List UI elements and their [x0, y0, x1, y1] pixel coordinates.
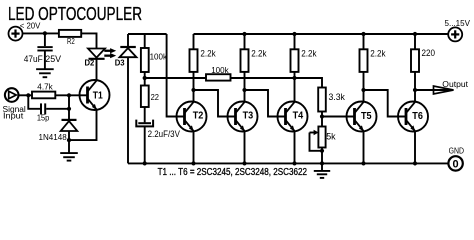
node rail T5 emitter — [361, 161, 365, 165]
svg-text:T2: T2 — [193, 111, 204, 122]
wire 4.7k to T1 base — [55, 94, 87, 96]
wire 47uF top lead — [44, 33, 46, 46]
wire +20V to R2 — [22, 32, 58, 34]
wire T5 emitter to rail — [363, 132, 365, 164]
resistor 2.2k no1 — [190, 49, 198, 72]
resistor 220 — [411, 49, 419, 72]
transistor T2 — [177, 102, 207, 132]
node rail 220 — [413, 32, 417, 36]
node 5k rail — [320, 161, 324, 165]
terminal 5...15V — [448, 27, 462, 41]
svg-text:5k: 5k — [326, 131, 336, 141]
transistor T4 — [278, 102, 308, 132]
capacitor 15p — [41, 103, 45, 114]
node T2 collector coupling — [191, 88, 195, 92]
svg-text:4.7k: 4.7k — [37, 82, 53, 92]
svg-text:0: 0 — [453, 158, 459, 170]
svg-text:Output: Output — [442, 79, 468, 89]
resistor 3.3k — [318, 88, 326, 112]
resistor 100k vertical — [141, 48, 149, 72]
resistor 2.2k no3 — [291, 49, 299, 72]
svg-text:22: 22 — [151, 92, 160, 102]
node T6 collector output — [413, 88, 417, 92]
wire output — [415, 89, 454, 91]
wire 2.2uF bottom to rail — [144, 126, 146, 163]
node T5 collector coupling — [361, 88, 365, 92]
node rail 2.2k no2 — [242, 32, 246, 36]
svg-text:3.3k: 3.3k — [329, 92, 346, 102]
node T5 base / 5k — [320, 114, 324, 118]
capacitor 2.2uF/3V electrolytic — [136, 120, 153, 127]
svg-text:100k: 100k — [150, 52, 168, 62]
capacitor C 47uF/25V — [37, 47, 52, 50]
output arrow — [434, 86, 454, 94]
wire 22 to 2.2uF — [144, 107, 146, 122]
bottom rail — [128, 162, 448, 164]
diode D1 1N4148 (cathode up) — [61, 120, 78, 131]
resistor 2.2k no2 — [241, 49, 249, 72]
node base/diode/cap — [67, 93, 71, 97]
wire base node down to 1N4148 — [68, 95, 70, 120]
wire to T5 base — [322, 116, 355, 118]
svg-text:220: 220 — [422, 48, 436, 58]
svg-text:47uF: 47uF — [24, 54, 44, 64]
wire coupling T3 to T4 base — [245, 90, 286, 117]
svg-text:GND: GND — [449, 145, 464, 155]
resistor 100k horizontal (feedback) — [206, 74, 231, 80]
node rail T3 emitter — [242, 161, 246, 165]
diode D2 (LED, cathode down) — [88, 49, 105, 59]
ground symbol below rail — [314, 163, 330, 178]
node rail T4 emitter — [292, 161, 296, 165]
svg-text:2.2uF/3V: 2.2uF/3V — [148, 129, 180, 139]
potentiometer 5k — [310, 127, 326, 151]
power rail 5..15V — [194, 33, 449, 35]
wire 2.2k no1 top lead — [193, 34, 195, 50]
node rail 2.2k no4 — [361, 32, 365, 36]
svg-text:5...15V: 5...15V — [445, 18, 471, 28]
node 15p/diode column — [67, 107, 71, 111]
resistor 4.7k — [32, 92, 55, 99]
wire T2 base vertical from rail A — [167, 34, 185, 117]
transistor T1 — [80, 80, 110, 110]
resistor 2.2k no4 — [360, 49, 368, 72]
ground under T1 — [60, 153, 78, 161]
wire 1N4148 to ground — [68, 131, 70, 153]
svg-text:R2: R2 — [67, 37, 75, 46]
svg-text:D2: D2 — [85, 57, 95, 67]
svg-text:T3: T3 — [243, 111, 254, 122]
svg-text:15p: 15p — [37, 113, 50, 123]
wire 15p branch right — [46, 108, 69, 110]
wire 220 top lead — [414, 34, 416, 50]
wire D3 anode down to bottom rail — [127, 57, 129, 163]
node 5k wiper join — [320, 149, 324, 153]
wire 15p branch left — [28, 95, 40, 109]
wire coupling T2 to T3 base — [194, 90, 236, 117]
wire 100k-h right to 3.3k corner — [231, 78, 323, 88]
wire T1 emitter — [69, 110, 97, 140]
svg-text:100k: 100k — [211, 65, 229, 75]
svg-text:2.2k: 2.2k — [200, 48, 216, 58]
node input/15p — [26, 93, 30, 97]
wire 2.2k no4 top lead — [363, 34, 365, 50]
resistor R2 — [59, 30, 81, 37]
resistor 22 — [141, 86, 149, 108]
wire 2.2k no3 top lead — [294, 34, 296, 50]
terminal Signal Input — [5, 88, 19, 102]
wire 2.2k no4 to T5 collector — [363, 72, 365, 103]
wire 47uF bottom lead — [44, 51, 46, 70]
node emitter/diode — [67, 138, 71, 142]
svg-text:T5: T5 — [361, 111, 372, 122]
node T3 collector coupling — [242, 88, 246, 92]
wire T2 emitter to rail — [193, 132, 195, 164]
svg-text:2.2k: 2.2k — [370, 48, 386, 58]
wire 3.3k bottom to T5 base node — [321, 112, 323, 127]
transistor T3 — [228, 102, 258, 132]
wire 2.2k no2 to T3 collector — [244, 72, 246, 103]
svg-text:1N4148: 1N4148 — [39, 132, 67, 142]
node rail T2 emitter — [191, 161, 195, 165]
wire 2.2k no3 to T4 collector — [294, 72, 296, 103]
wire R2 to D2 corner — [81, 33, 97, 48]
node 47uF tap — [43, 31, 47, 35]
svg-text:T4: T4 — [293, 111, 304, 122]
wire T6 emitter to rail — [414, 132, 416, 164]
wire 5k bottom to rail — [321, 148, 323, 164]
svg-text:Input: Input — [3, 111, 24, 120]
light arrows D2 to D3 — [104, 48, 116, 58]
wire 100k top lead — [144, 34, 146, 48]
ground under 47uF — [36, 69, 54, 77]
node rail 2.2k no3 — [292, 32, 296, 36]
wire input to 4.7k — [19, 94, 33, 96]
wire T3 emitter to rail — [244, 132, 246, 164]
node B — [143, 76, 147, 80]
terminal +20V — [9, 27, 23, 41]
diode D3 (photodiode, cathode up) — [120, 47, 137, 57]
transistor T6 — [398, 102, 428, 132]
transistor T5 — [347, 102, 377, 132]
wire 2.2k no2 top lead — [244, 34, 246, 50]
wire 100k bottom to node B — [144, 72, 146, 86]
svg-text:D3: D3 — [115, 58, 125, 68]
svg-text:25V: 25V — [45, 54, 61, 64]
wire coupling T5 to T6 base — [364, 90, 407, 117]
node T4 collector feedback — [292, 76, 296, 80]
svg-text:T1 ... T6 = 2SC3245, 2SC3248,: T1 ... T6 = 2SC3245, 2SC3248, 2SC3622 — [158, 167, 307, 178]
wire 220 to T6 collector — [414, 72, 416, 103]
svg-text:T6: T6 — [412, 111, 423, 122]
node rail T6 emitter — [413, 161, 417, 165]
svg-text:T1: T1 — [93, 91, 103, 102]
wire T4 emitter to rail — [294, 132, 296, 164]
wire D2 cathode to T1 collector — [96, 59, 98, 81]
node A rail (D3/100k/T2 base) — [128, 33, 167, 35]
svg-text:2.2k: 2.2k — [301, 48, 317, 58]
node rail 2.2uF — [143, 161, 147, 165]
wire D3 top lead — [127, 34, 129, 47]
svg-text:2.2k: 2.2k — [251, 48, 267, 58]
terminal GND — [448, 156, 462, 170]
svg-text:< 20V: < 20V — [20, 20, 41, 30]
wire 2.2k no1 to T2 collector — [193, 72, 195, 103]
wire node B to 100k horizontal — [145, 77, 206, 79]
